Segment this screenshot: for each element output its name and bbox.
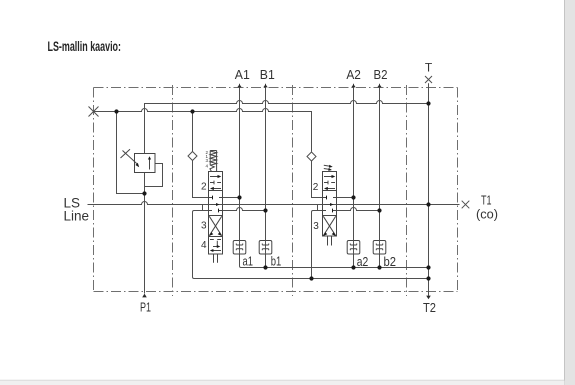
section divider 1 — [172, 85, 174, 296]
wire valve2 B-port — [337, 208, 380, 211]
wire valve1 B-port — [223, 208, 266, 211]
plug X at T1 co — [462, 201, 470, 209]
shock valve a2 — [347, 241, 360, 255]
port arrow B1 — [263, 84, 267, 87]
plug X at T top — [425, 76, 432, 83]
svg-text:b1: b1 — [271, 255, 282, 269]
port labels — [64, 61, 499, 316]
svg-text:a1: a1 — [243, 255, 254, 269]
svg-text:B2: B2 — [374, 67, 388, 82]
svg-text:2: 2 — [313, 182, 319, 193]
svg-text:(co): (co) — [476, 207, 498, 222]
relief valve RV body — [135, 154, 156, 173]
plug X on left border — [89, 107, 99, 117]
valve V1 closed section X — [209, 216, 221, 236]
wire A1 — [240, 84, 429, 268]
wire valve1 frame and tank gallery — [193, 211, 429, 279]
valve V1 section4 — [210, 240, 221, 253]
svg-text:B1: B1 — [260, 67, 275, 82]
wire P1 supply — [144, 173, 146, 294]
wire valve1 A-port — [223, 197, 240, 199]
compensator setting digits — [205, 150, 208, 169]
wire T return — [428, 83, 430, 296]
relief valve flow arrow — [149, 159, 151, 170]
svg-text:LS-mallin kaavio:: LS-mallin kaavio: — [48, 39, 122, 54]
port arrow B2 — [377, 84, 381, 87]
orifice diamond valve 2 — [307, 152, 316, 161]
valve V2 drain — [328, 236, 332, 246]
svg-text:T1: T1 — [481, 193, 492, 208]
port arrow T2 — [426, 296, 431, 300]
wire valve1 LS stub — [202, 205, 204, 211]
valve V1 drain — [214, 254, 218, 263]
port arrow A2 — [351, 84, 355, 87]
wire LS line — [88, 202, 460, 205]
svg-text:3: 3 — [313, 221, 319, 232]
relief valve adjust arrow — [123, 151, 137, 164]
wire A2 — [353, 84, 355, 268]
wire upper gallery from relief valve to T — [145, 101, 429, 154]
svg-text:3: 3 — [201, 221, 207, 232]
wire B1 — [265, 84, 267, 268]
valve V1 port band marks — [209, 196, 223, 213]
wire valve2 pilot — [312, 161, 323, 198]
wire valve2 A-port — [337, 197, 354, 199]
svg-text:a2: a2 — [357, 255, 369, 269]
valve V2 spring top — [324, 165, 333, 171]
shock valve b1 — [259, 241, 272, 255]
section divider 3 — [406, 85, 408, 296]
svg-text:T2: T2 — [423, 300, 436, 315]
wire valve2 LS stub — [317, 205, 319, 211]
port arrow P1 — [142, 294, 147, 298]
shock valve b2 — [373, 241, 386, 255]
wire relief branch left — [117, 112, 145, 194]
valve V2 body — [323, 172, 337, 237]
compensator spring valve1 — [210, 151, 217, 172]
svg-text:b2: b2 — [384, 255, 397, 269]
valve V1 section2 arrows — [210, 175, 221, 190]
svg-text:A1: A1 — [235, 67, 250, 82]
svg-text:Line: Line — [64, 209, 90, 224]
svg-text:2: 2 — [201, 182, 207, 193]
port arrow A1 — [237, 84, 241, 87]
shock valve a1 — [233, 241, 246, 255]
orifice diamond valve 1 — [188, 152, 197, 161]
wire relief pilot loop — [145, 164, 163, 187]
wire plugged lower gallery — [94, 109, 312, 152]
wire valve2 frame — [312, 211, 323, 279]
svg-text:P1: P1 — [140, 300, 151, 315]
enclosure border — [94, 88, 458, 292]
wire valve1 pilot from lower gallery — [193, 112, 209, 198]
valve V2 port band marks — [323, 196, 337, 213]
valve V1 body — [209, 172, 223, 255]
valve V2 section2 arrows — [324, 175, 335, 190]
section divider 2 — [292, 85, 294, 296]
svg-text:T: T — [425, 61, 433, 75]
valve V2 closed section X — [323, 216, 335, 236]
wire B2 — [379, 84, 381, 268]
svg-text:A2: A2 — [346, 67, 361, 82]
svg-text:4: 4 — [201, 240, 207, 251]
valve section numbers — [201, 182, 319, 252]
